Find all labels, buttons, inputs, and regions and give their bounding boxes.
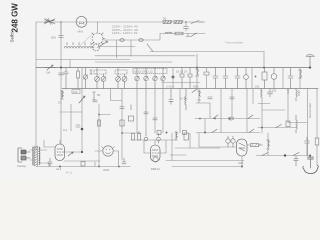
wire v3 sides [144, 152, 166, 154]
wire y133 [122, 132, 141, 134]
resistor R17 box [315, 138, 319, 145]
wire x270 cap [268, 89, 273, 98]
trimmer T3 [144, 133, 148, 141]
wire x99 [98, 151, 100, 166]
wire x197 top [196, 54, 198, 68]
wire x262 long [261, 97, 263, 133]
wire y160 [64, 160, 100, 162]
switch S1 [191, 21, 203, 24]
svg-text:150: 150 [272, 90, 277, 93]
wiper arrow S2b [98, 41, 108, 48]
capacitor C3 [59, 73, 64, 75]
wire v4 bottom [241, 156, 243, 166]
wire y110 right [262, 109, 285, 111]
node F [81, 128, 84, 131]
resistor R12 [267, 140, 270, 149]
wire y103 right [258, 103, 270, 105]
wire x205 link [204, 119, 206, 133]
wire x166 [165, 140, 167, 153]
node K [261, 127, 263, 129]
capacitor C14 [64, 68, 68, 89]
resistor R20 box [286, 121, 290, 127]
wire x82 long [81, 68, 83, 152]
capacitor plates x155 [153, 118, 157, 120]
wire x252 [251, 68, 253, 89]
trimmer T9 [157, 133, 161, 143]
wire speaker top [30, 149, 47, 151]
svg-text:0,3: 0,3 [58, 101, 62, 105]
resistor R11 box [184, 133, 189, 140]
wire v3 top [154, 140, 156, 145]
label rows small [166, 86, 188, 101]
wire y51 bus [150, 51, 264, 53]
resistor R1 [163, 21, 172, 24]
wire y122 right [288, 122, 307, 124]
resistor R13 [175, 32, 183, 35]
wire v1 right [65, 151, 83, 153]
trimmer row T5-T8 [135, 68, 192, 89]
wire y155 right [256, 155, 310, 157]
wire x70 link [69, 60, 71, 68]
wire x116 drop [116, 40, 118, 58]
wire x317 [316, 89, 318, 166]
node dots y118 [199, 118, 201, 120]
node E [172, 76, 175, 79]
bus y132 [196, 132, 260, 134]
wire x131 drop [130, 40, 132, 56]
node P [98, 166, 100, 168]
capacitor C2 [184, 27, 189, 29]
resistor R18 box [81, 162, 85, 167]
svg-text:4 + 1: 4 + 1 [66, 171, 72, 175]
resistor R15 [61, 91, 64, 99]
caps input [226, 136, 235, 147]
wire y59 [36, 59, 130, 61]
resistor R22 [132, 134, 135, 141]
tube V1 output [55, 144, 65, 161]
switch S5 [293, 153, 299, 156]
node J [284, 154, 286, 156]
capacitor plates x122 [120, 107, 124, 109]
capacitor C6 [235, 68, 240, 89]
wire speaker bottom [30, 160, 49, 167]
bus y118 [195, 118, 260, 120]
speaker LS [18, 148, 30, 162]
component row y131 [157, 131, 187, 135]
node Q [196, 67, 198, 69]
wire x206 [206, 68, 208, 89]
node H [59, 166, 61, 168]
capacitor C11 [48, 158, 52, 167]
wire E stem [172, 68, 174, 89]
wire top rail y22 [36, 21, 205, 23]
svg-text:50: 50 [163, 17, 167, 21]
lamp tube V0 [76, 16, 87, 27]
svg-text:AM2: AM2 [103, 168, 110, 172]
wire x288 [287, 89, 289, 123]
tube V2 magic eye [102, 146, 115, 156]
tick x95 [94, 162, 96, 167]
resistor R19 box [129, 116, 134, 121]
svg-text:100: 100 [73, 91, 78, 94]
step wires right of V3 [170, 148, 220, 155]
capacitor C12 [122, 158, 126, 164]
svg-text:(4V): (4V) [78, 30, 84, 34]
resistor R9 [198, 91, 201, 100]
node antenna junction [60, 21, 62, 23]
label Netzschalter vertical [308, 102, 312, 118]
resistor R3 vertical [90, 70, 93, 74]
pot AVC arrow [79, 96, 85, 103]
svg-text:AL4: AL4 [56, 167, 62, 171]
trimmer T4 [83, 68, 87, 89]
labels right column [286, 88, 301, 96]
contact c [213, 115, 218, 119]
node D [185, 21, 187, 23]
capacitor plates x210 [208, 97, 212, 99]
wire left rail x36 [35, 22, 37, 150]
wire y166 mid [172, 166, 242, 168]
resistor R16 [77, 68, 80, 89]
svg-text:50: 50 [97, 93, 101, 97]
svg-text:5000: 5000 [130, 104, 133, 110]
wire x172 [171, 133, 173, 160]
wire y46 [99, 46, 135, 48]
contact pair d [228, 117, 233, 120]
electrolytic C7 [244, 68, 249, 89]
svg-text:5000: 5000 [193, 86, 199, 89]
wire y82 [162, 82, 200, 84]
wire y112 [60, 111, 82, 113]
svg-text:248 GW: 248 GW [11, 3, 20, 33]
antenna A [44, 18, 55, 24]
wire x268 [267, 133, 269, 156]
coil L5 vertical [296, 115, 297, 133]
resistor R6 box [262, 68, 267, 89]
switch S8 [192, 89, 198, 93]
wire x307 long [307, 89, 309, 156]
coil L2 [165, 32, 172, 33]
wire x71 [70, 104, 72, 131]
wire y103 [196, 102, 210, 104]
wire below C2 [185, 28, 187, 31]
node O [81, 151, 83, 153]
resistor R10 [175, 132, 178, 140]
switch S4 [262, 153, 268, 156]
svg-text:10 50 2: 10 50 2 [166, 86, 175, 89]
contact pair b [139, 39, 143, 42]
tube V3 [151, 145, 161, 162]
bus main y67 [36, 67, 311, 69]
wire x180 [179, 89, 181, 134]
trimmer T2 group [115, 68, 127, 89]
node R [263, 67, 265, 69]
wire x247 low [246, 89, 248, 133]
wire x144 [143, 140, 145, 153]
capacitor C15 [169, 89, 173, 105]
wire x61 tick [60, 22, 62, 36]
coil L8 vertical [185, 89, 186, 111]
coil L1 tapped [64, 43, 94, 49]
transformer TR1 [33, 146, 40, 166]
wire cap drop [185, 22, 187, 27]
wire y56 [95, 55, 195, 57]
wire x300 [299, 68, 301, 89]
wire x283 [282, 68, 284, 89]
svg-text:110V~ 110V= 40: 110V~ 110V= 40 [112, 31, 138, 35]
svg-text:Feldsp.: Feldsp. [17, 164, 27, 168]
contact f [212, 129, 217, 132]
wire x197 [196, 68, 198, 89]
wire x264 drop [263, 52, 265, 68]
capacitor C1 500 [59, 36, 64, 38]
svg-text:50 100: 50 100 [180, 98, 188, 101]
wire v4 left [190, 133, 237, 148]
wire y62 [95, 61, 172, 63]
IF verticals [137, 89, 163, 134]
wire y166 [36, 166, 130, 168]
arrow grid [68, 152, 73, 156]
capacitor C13 [305, 137, 310, 156]
capacitor C9 [288, 68, 293, 89]
resistor R14 [97, 120, 100, 126]
resistor R23 [138, 132, 141, 141]
wire x210 [209, 103, 211, 118]
capacitor C16 [294, 156, 298, 167]
wire x199 [198, 89, 200, 104]
svg-text:100: 100 [255, 86, 260, 89]
wire v2 right [114, 151, 119, 166]
capacitor C4 [213, 68, 218, 89]
contact g [249, 129, 254, 132]
label boxes small [72, 90, 80, 94]
resistor R8 [93, 92, 96, 100]
capacitor C10 [76, 125, 80, 127]
svg-text:Netzschalter: Netzschalter [308, 102, 312, 118]
node G [204, 132, 206, 134]
node T [98, 114, 100, 116]
tube V3 base [153, 157, 158, 162]
wire switch to right y40 [103, 39, 160, 41]
node S [255, 76, 257, 78]
node N [60, 67, 62, 69]
wire y114 [99, 114, 111, 116]
wire v4 right fuse [248, 144, 263, 147]
node I [241, 166, 243, 168]
resistor R21 box [120, 120, 124, 126]
label voltage table [112, 25, 138, 36]
potentiometer P1 [45, 65, 55, 70]
svg-text:AZ1: AZ1 [238, 161, 244, 165]
electrolytic C8 [271, 68, 277, 89]
wire v1 top [59, 140, 61, 144]
wire x232 [231, 89, 233, 119]
wire x99 mid [98, 104, 100, 151]
svg-text:Trennschalter: Trennschalter [225, 41, 243, 45]
wire x61 drop [60, 22, 62, 144]
resistor R4 [196, 69, 199, 76]
wire x122 long [121, 89, 123, 161]
ground symbol GND [306, 54, 315, 69]
title Seibt 248 GW [10, 3, 20, 43]
coil L7 vertical [261, 89, 262, 98]
coil L6 vertical [296, 89, 297, 102]
svg-text:EBF11: EBF11 [151, 167, 160, 171]
wire y140 [131, 139, 175, 141]
svg-text:1M: 1M [46, 71, 51, 75]
bus y88 [62, 88, 318, 90]
switch S6 [276, 125, 282, 128]
wire y127 right [258, 127, 296, 129]
node L [309, 155, 311, 157]
power cord [303, 156, 319, 174]
node U [121, 132, 123, 134]
lamp element [80, 23, 84, 25]
switch lever S3 [147, 44, 153, 52]
svg-text:500: 500 [51, 36, 56, 40]
capacitor plates x95 [93, 100, 97, 102]
wire y33.5 row [160, 34, 205, 41]
wire v2 left [95, 150, 102, 152]
capacitor plates x232 [230, 97, 234, 99]
tube V4 rect [237, 139, 248, 156]
rotary switch S2 [92, 33, 105, 51]
wire x221 [220, 89, 222, 133]
capacitor plates x146 [144, 112, 148, 114]
wire eye feed [111, 89, 123, 101]
switch S7 [191, 33, 197, 37]
svg-text:0,1: 0,1 [63, 128, 68, 132]
svg-text:19 10 19: 19 10 19 [176, 70, 187, 74]
trimmer T1 group [94, 68, 106, 89]
resistor R2 [174, 21, 183, 24]
svg-text:4x50: 4x50 [286, 88, 290, 94]
svg-text:2x6V: 2x6V [297, 90, 301, 96]
wire switch feed [96, 22, 98, 33]
resistor R7 [299, 70, 302, 78]
wire v1 left [44, 140, 55, 147]
contact e [248, 115, 253, 119]
node M [118, 166, 120, 168]
wire y160 mid [166, 160, 244, 162]
capacitor C5 [223, 68, 228, 89]
contact pair a [120, 39, 124, 42]
wire x253 [252, 89, 254, 104]
tick x188 [186, 34, 190, 37]
label box row [133, 69, 167, 74]
resistor R5 [204, 72, 209, 75]
switch wiper line [79, 35, 92, 47]
